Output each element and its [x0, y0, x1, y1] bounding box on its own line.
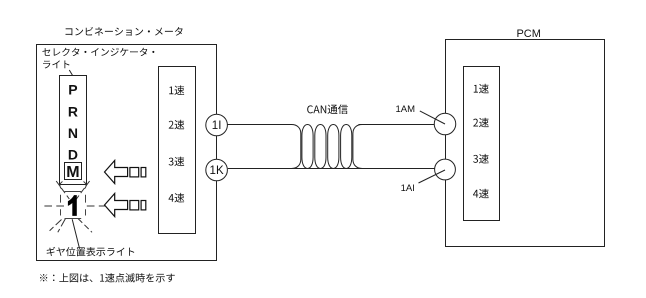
svg-text:PCM: PCM — [516, 28, 540, 40]
label 2速 (meter) — [169, 120, 185, 130]
blink ray down-left shallow — [50, 220, 62, 231]
horizontal dashed blink line left segment — [44, 205, 64, 207]
svg-text:1I: 1I — [212, 120, 222, 132]
svg-text:1AM: 1AM — [396, 104, 416, 115]
shift arrow lower (1 row) square block — [130, 201, 139, 210]
shift arrow lower (1 row) — [105, 194, 128, 217]
connector pin 1AM circle — [434, 113, 456, 135]
svg-text:1AI: 1AI — [401, 183, 415, 194]
twisted pair right end cap — [353, 125, 362, 169]
svg-text:M: M — [66, 164, 79, 181]
label 3速 (meter) — [169, 157, 185, 167]
twisted pair loop 3 — [328, 125, 339, 169]
leader 1AM — [420, 111, 445, 124]
label 1速 (meter) — [169, 85, 184, 95]
svg-text:1K: 1K — [210, 165, 224, 177]
label 1速 (PCM) — [474, 84, 489, 94]
svg-text:R: R — [68, 104, 78, 120]
label 4速 (PCM) — [473, 189, 489, 199]
leader from セレクタ label to selector box — [69, 70, 72, 76]
blink ray down-right — [78, 219, 92, 233]
shift arrow upper (M row) square block — [130, 168, 139, 177]
shift arrow lower (1 row) narrow block — [141, 201, 146, 210]
label セレクタ・インジケータ・ line1 — [42, 48, 154, 56]
svg-text:P: P — [68, 82, 77, 98]
label CAN通信 — [307, 104, 348, 114]
leader line to ギヤ位置表示ライト label — [72, 219, 79, 247]
twisted pair loop 4 — [341, 125, 352, 169]
label 2速 (PCM) — [473, 118, 489, 128]
connector pin 1I — [206, 114, 228, 136]
connector pin 1AI circle — [435, 159, 456, 180]
selector indicator box (P R N D M column) — [60, 76, 87, 185]
note ※：上図は、1速点滅時を示す — [40, 273, 175, 282]
connector pin 1K — [206, 159, 228, 181]
svg-text:D: D — [68, 147, 78, 163]
label コンビネーション・メータ — [65, 27, 182, 36]
blink ray up-right — [76, 181, 89, 199]
twisted pair loop 1 — [302, 125, 313, 169]
PCM gear list box — [464, 67, 500, 221]
combination meter box (コンビネーション・メータ) — [37, 45, 217, 261]
leader 1AI — [419, 170, 446, 183]
wire CAN-L bottom from 1K to 1AI — [228, 168, 435, 170]
svg-text:N: N — [68, 125, 78, 141]
label ライト line2 — [43, 60, 69, 68]
gear numeral 1 — [68, 195, 77, 216]
twisted pair loop 2 — [315, 125, 326, 169]
blink box around gear numeral 1 (broken outline) — [61, 192, 86, 219]
horizontal dashed blink line right segment — [87, 205, 106, 207]
flare curl left at column bottom corner — [60, 182, 63, 189]
shift arrow upper (M row) — [105, 161, 128, 184]
wire CAN-H top from 1I to twist — [227, 124, 291, 126]
PCM box — [446, 40, 605, 247]
label 4速 (meter) — [169, 193, 185, 203]
label ギヤ位置表示ライト — [47, 247, 135, 256]
flare curl right at column bottom corner — [84, 182, 87, 189]
label 3速 (PCM) — [473, 154, 489, 164]
meter gear list box — [159, 67, 196, 234]
M indicator box — [65, 163, 82, 180]
blink ray down-left steep — [58, 219, 66, 233]
blink ray up-left — [56, 181, 69, 199]
twisted pair left end cap — [292, 125, 301, 169]
wire CAN-H top from twist to 1AM — [359, 124, 435, 126]
shift arrow upper (M row) narrow block — [141, 168, 146, 177]
